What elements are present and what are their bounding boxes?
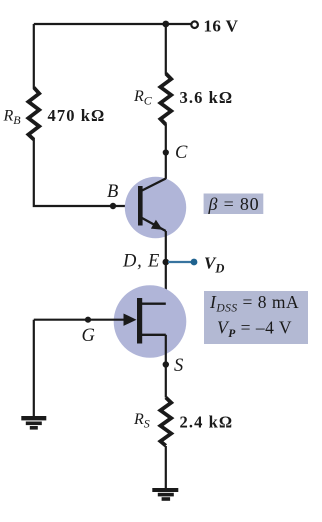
svg-text:G: G: [82, 326, 95, 346]
wire: top horizontal from RB rail to 16V terminal: [34, 23, 191, 25]
svg-text:S: S: [174, 356, 183, 376]
wire: left rail down + base wire: [34, 138, 140, 206]
wire: RS to bottom ground: [165, 446, 167, 489]
svg-text:2.4 kΩ: 2.4 kΩ: [180, 413, 234, 432]
svg-text:RS: RS: [133, 411, 150, 431]
wire: collector wire RC to BJT: [165, 124, 167, 179]
wire: emitter down to JFET drain: [143, 231, 166, 304]
wire: VCC rail down to RC: [165, 24, 167, 74]
svg-text:470 kΩ: 470 kΩ: [48, 106, 106, 125]
wire: lower-left rail to ground: [33, 320, 35, 417]
svg-text:RC: RC: [133, 88, 153, 108]
svg-text:16 V: 16 V: [204, 17, 239, 36]
svg-text:D, E: D, E: [122, 252, 160, 272]
terminal: open circle 16 V supply: [191, 21, 198, 28]
svg-text:RB: RB: [3, 108, 22, 128]
label box: beta = 80: [204, 194, 264, 215]
svg-text:β = 80: β = 80: [208, 194, 260, 214]
node S dot: [163, 361, 169, 367]
node G dot: [85, 317, 91, 323]
node: junction at VCC rail: [162, 21, 169, 28]
transistor Q2: n-JFET in shaded circle: [114, 285, 187, 358]
node C dot: [163, 149, 169, 155]
wire: VD probe lead (blue): [168, 261, 192, 263]
svg-text:VD: VD: [204, 254, 224, 276]
label box: IDSS and VP: [204, 291, 308, 344]
resistor RS 2.4k zigzag: [160, 398, 171, 446]
wire: gate wire from left rail: [34, 319, 130, 321]
transistor Q1: BJT npn in shaded circle: [125, 177, 186, 238]
wire: JFET source down to RS: [165, 335, 167, 398]
ground (bottom): [152, 488, 178, 501]
svg-text:B: B: [107, 182, 118, 202]
node D,E dot: [163, 259, 170, 266]
node: VD blue dot: [191, 259, 198, 266]
resistor RC 3.6k zigzag: [160, 74, 171, 125]
svg-text:3.6 kΩ: 3.6 kΩ: [180, 88, 234, 107]
wire: left rail top segment: [33, 24, 35, 88]
resistor RB 470k zigzag: [28, 88, 39, 140]
node B dot: [110, 203, 116, 209]
ground (left): [21, 416, 46, 430]
svg-text:C: C: [175, 143, 188, 163]
